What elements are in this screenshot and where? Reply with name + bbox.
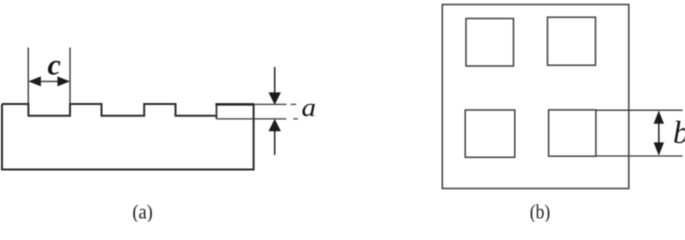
svg-text:c: c bbox=[48, 48, 61, 81]
svg-text:b: b bbox=[673, 114, 685, 150]
svg-text:(a): (a) bbox=[132, 201, 153, 222]
svg-text:(b): (b) bbox=[530, 201, 551, 222]
svg-text:a: a bbox=[302, 93, 317, 122]
